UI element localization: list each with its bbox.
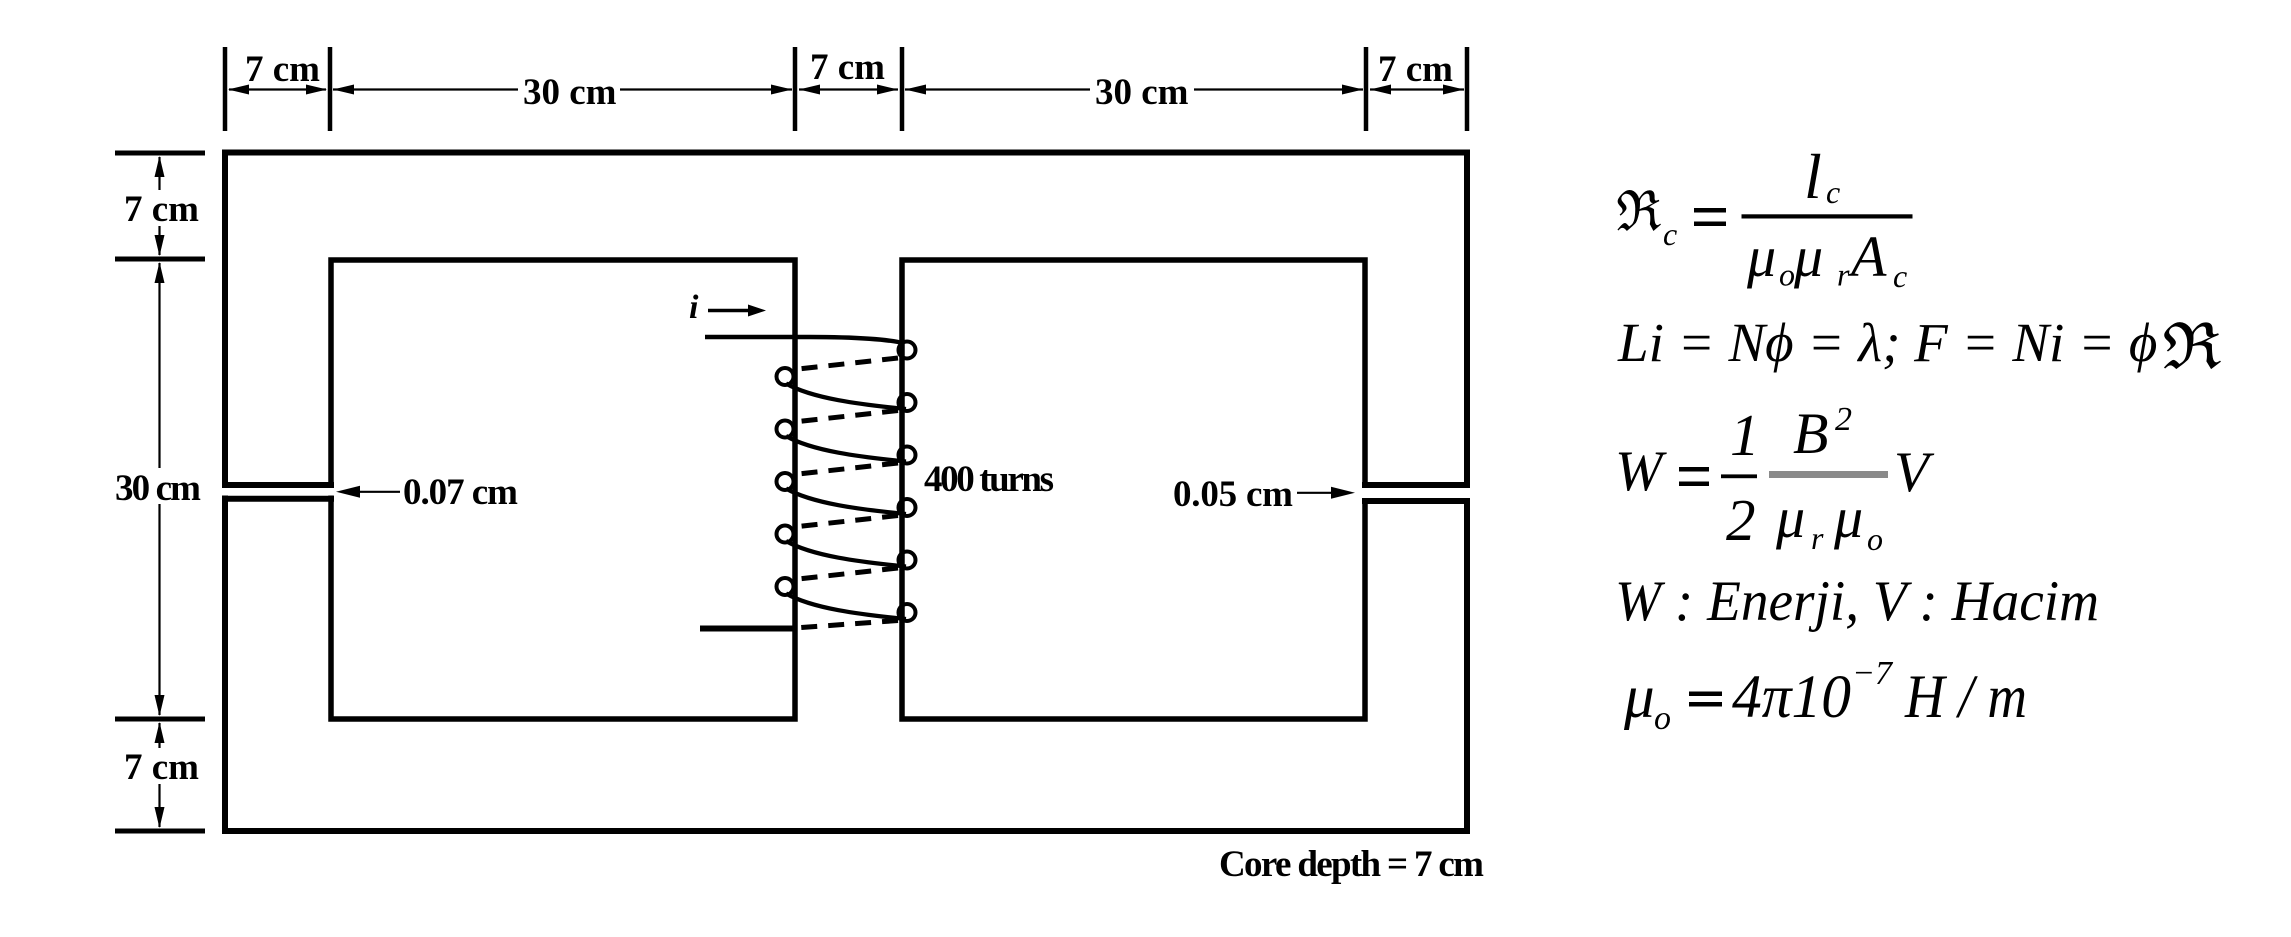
svg-text:−7: −7 (1852, 655, 1894, 692)
svg-text:0.05 cm: 0.05 cm (1173, 474, 1293, 515)
coil right hook 3 (899, 447, 916, 464)
equation 1: reluctance formula R_c = l_c/(mu_o mu_r A_c) (1617, 141, 1912, 294)
left dimension tick marks (115, 151, 205, 156)
svg-text:7 cm: 7 cm (810, 47, 885, 88)
coil front arc 3 (786, 489, 906, 515)
svg-text:r: r (1837, 257, 1850, 293)
coil left hook 1 (777, 368, 794, 385)
svg-text:7 cm: 7 cm (124, 747, 199, 788)
coil back dashed turn 2 (794, 411, 898, 423)
top dim segment 7cm right (1370, 88, 1464, 90)
svg-text:l: l (1804, 141, 1822, 212)
left dim segment 30cm (158, 263, 160, 715)
svg-text:7 cm: 7 cm (124, 189, 199, 230)
coil front arc 1 (786, 384, 906, 410)
top dim segment 30cm right (905, 88, 1363, 90)
svg-text:1: 1 (1730, 402, 1760, 468)
air gap in right leg (0.05 cm) (1354, 488, 1478, 498)
coil right hook 2 (899, 394, 916, 411)
equation 5: mu_o = 4 pi 10^-7 H/m (1623, 655, 2027, 737)
svg-text:c: c (1663, 216, 1677, 252)
coil right hook 4 (899, 499, 916, 516)
coil right hook 6 (899, 604, 916, 621)
left dim segment 7cm bottom (158, 723, 160, 827)
coil right hook 1 (899, 342, 916, 359)
svg-text:r: r (1811, 520, 1824, 556)
left dim segment 7cm top (158, 157, 160, 255)
svg-text:2: 2 (1726, 487, 1756, 553)
equation 2: Li = N phi = lambda ; F = Ni = phi R (1617, 312, 2221, 373)
coil back dashed to exit (795, 621, 898, 629)
coil right hook 5 (899, 552, 916, 569)
svg-text:W: W (1615, 440, 1667, 503)
coil back dashed turn 3 (794, 463, 898, 475)
equation 3: energy W formula (1615, 401, 1935, 557)
svg-text:o: o (1779, 257, 1795, 293)
top dim segment 7cm middle (799, 88, 898, 90)
svg-text:μ: μ (1623, 664, 1655, 731)
svg-text:μ: μ (1793, 224, 1823, 289)
svg-text:μ: μ (1746, 224, 1776, 289)
svg-text:i: i (689, 289, 699, 326)
top dim segment 30cm left (333, 88, 792, 90)
left window (331, 260, 795, 719)
label 0.07 cm with arrow (344, 491, 400, 493)
top dim segment 7cm left (229, 88, 326, 90)
svg-text:2: 2 (1835, 401, 1852, 438)
svg-text:Li = Nϕ = λ; F = Ni = ϕ: Li = Nϕ = λ; F = Ni = ϕ (1617, 312, 2157, 373)
coil back dashed turn 5 (794, 568, 898, 580)
coil back dashed turn 1 (794, 358, 898, 370)
svg-text:c: c (1826, 174, 1840, 210)
coil back dashed turn 4 (794, 516, 898, 528)
svg-text:7 cm: 7 cm (245, 49, 320, 90)
coil entry wire (705, 337, 904, 344)
svg-text:W : Enerji, V : Hacim: W : Enerji, V : Hacim (1615, 570, 2099, 633)
coil exit wire (700, 626, 795, 632)
coil front arc 4 (786, 541, 906, 567)
svg-text:μ: μ (1775, 485, 1805, 550)
svg-text:30 cm: 30 cm (1095, 72, 1189, 113)
svg-text:c: c (1893, 258, 1907, 294)
svg-text:30 cm: 30 cm (523, 72, 617, 113)
svg-text:30 cm: 30 cm (115, 468, 201, 509)
svg-text:7 cm: 7 cm (1378, 49, 1453, 90)
svg-text:μ: μ (1833, 485, 1863, 550)
coil front arc 2 (786, 436, 906, 462)
core outer boundary (225, 153, 1467, 832)
coil left hook 2 (777, 421, 794, 438)
svg-text:A: A (1847, 224, 1887, 289)
coil left hook 5 (777, 578, 794, 595)
svg-text:B: B (1793, 401, 1828, 466)
right window (902, 260, 1365, 719)
air gap in left leg (0.07 cm) (214, 488, 342, 496)
svg-text:400 turns: 400 turns (924, 459, 1054, 500)
svg-text:Core depth = 7 cm: Core depth = 7 cm (1219, 844, 1484, 885)
svg-text:o: o (1867, 521, 1883, 557)
coil left hook 3 (777, 473, 794, 490)
coil front arc 5 (786, 594, 906, 620)
svg-text:H / m: H / m (1904, 664, 2027, 731)
svg-text:4π10: 4π10 (1732, 664, 1851, 731)
top dimension tick marks (223, 47, 228, 131)
coil left hook 4 (777, 526, 794, 543)
current arrow (708, 309, 750, 313)
svg-text:0.07 cm: 0.07 cm (403, 472, 518, 513)
svg-text:o: o (1654, 700, 1671, 737)
